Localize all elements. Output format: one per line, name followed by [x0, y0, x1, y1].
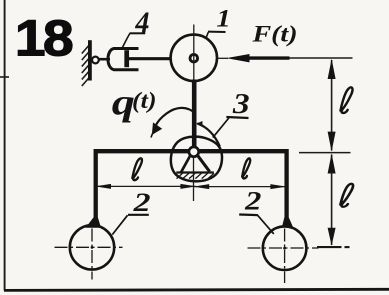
- pivot pin: [189, 147, 199, 157]
- leader arc 3: [197, 123, 220, 146]
- svg-text:1: 1: [216, 4, 230, 32]
- svg-text:(t): (t): [132, 88, 157, 113]
- damper cylinder 4: [108, 49, 139, 70]
- svg-text:18: 18: [15, 10, 73, 66]
- pivot base: [176, 171, 214, 173]
- link rod disc1 to pivot: [192, 80, 197, 150]
- dimension extension top: [290, 57, 353, 59]
- pivot centerline below: [193, 157, 195, 202]
- damper piston: [124, 50, 129, 67]
- cone joint right: [282, 218, 293, 228]
- wall: [88, 40, 92, 80]
- svg-text:F(t): F(t): [251, 21, 297, 47]
- disc 1 hub: [190, 54, 198, 62]
- label l left: [132, 158, 142, 180]
- wire rod wall to damper: [99, 58, 110, 61]
- vertical dimension lower segment: [331, 155, 333, 246]
- pin joint at wall: [92, 57, 99, 64]
- force arrow F: [245, 56, 290, 59]
- svg-text:4: 4: [134, 6, 149, 39]
- border bottom: [4, 289, 389, 290]
- cone joint left: [86, 218, 101, 228]
- disc 2 right: [263, 226, 307, 270]
- border tick: [0, 76, 9, 78]
- q(t) rotation arrow: [155, 108, 195, 127]
- dimension line left l: [96, 185, 196, 187]
- disc 2 left: [70, 225, 114, 269]
- svg-text:2: 2: [133, 188, 151, 217]
- dimension line right l: [194, 186, 286, 188]
- pivot triangle: [181, 156, 190, 173]
- leader line 3: [213, 118, 229, 138]
- disc 1 right centerline: [217, 57, 228, 59]
- disc 1 vertical centerline: [193, 25, 195, 82]
- dimension tick bottom: [317, 246, 342, 248]
- label l upper: [341, 87, 353, 113]
- damper rod to disc: [129, 57, 172, 60]
- svg-text:3: 3: [232, 88, 250, 120]
- label l right: [242, 158, 250, 178]
- body 3 circle around pivot: [171, 137, 222, 182]
- wall hatching: [82, 46, 89, 87]
- dimension tick middle: [299, 152, 351, 154]
- vertical dimension upper segment: [331, 60, 333, 151]
- lever frame (bar with two drops): [96, 151, 287, 222]
- svg-text:2: 2: [244, 187, 262, 215]
- disc 1: [171, 35, 217, 81]
- pivot hatching: [177, 173, 215, 178]
- label l lower: [340, 184, 353, 207]
- border left: [4, 0, 6, 291]
